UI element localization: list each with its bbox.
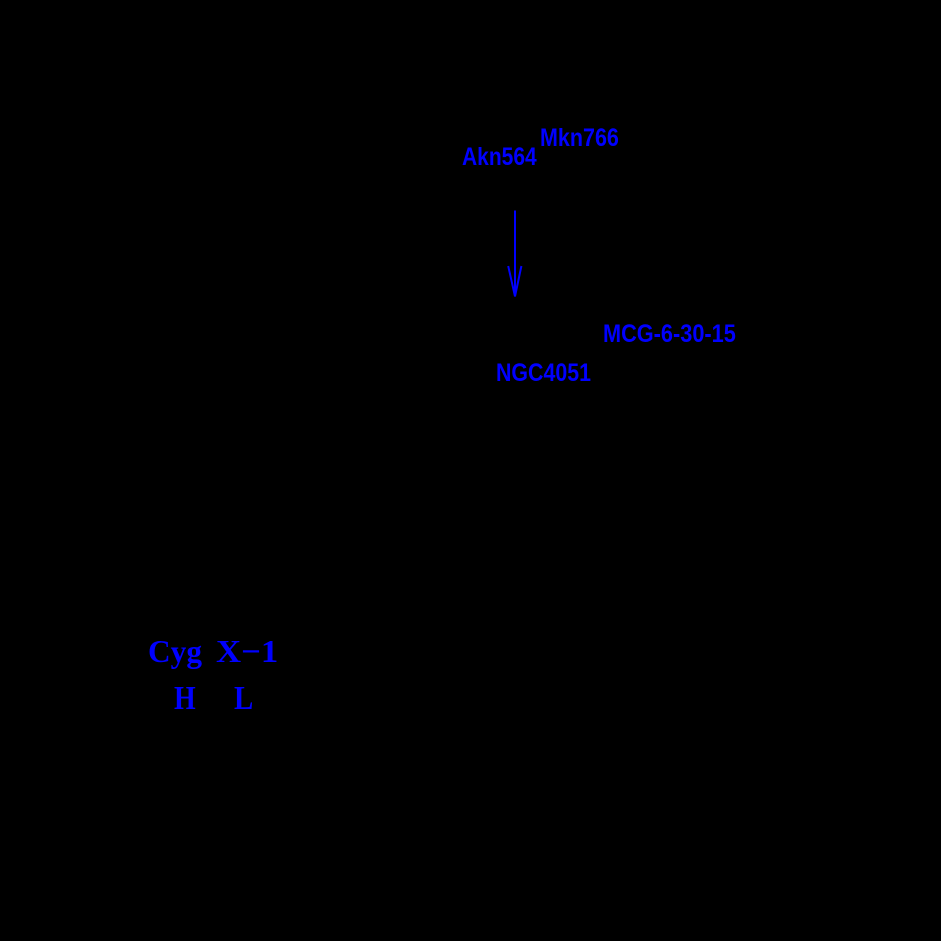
label Akn564 [462,145,537,170]
label X-1 [216,635,278,667]
label Mkn766 [540,126,619,151]
arrow (downward, open V head) [500,205,532,305]
label MCG-6-30-15 [603,322,736,347]
label Cyg [148,635,202,667]
label NGC4051 [496,361,591,386]
label H [174,682,196,716]
label L [234,682,253,716]
